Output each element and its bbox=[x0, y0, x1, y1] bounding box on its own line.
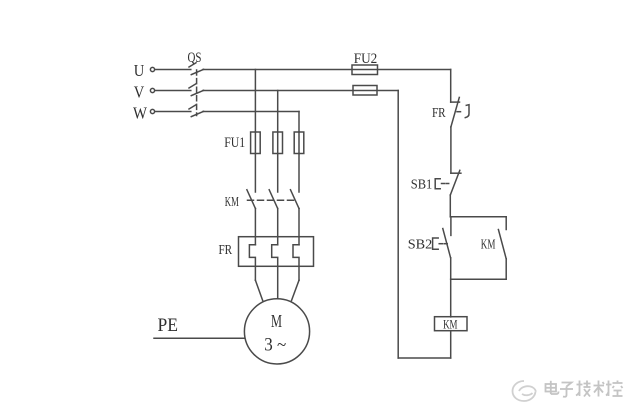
svg-text:FR: FR bbox=[218, 243, 232, 258]
wire W-bus bbox=[203, 111, 299, 113]
wire coil-to-bottom bbox=[450, 331, 452, 358]
wire fuse1-to-KM bbox=[254, 154, 256, 193]
svg-text:KM: KM bbox=[225, 195, 239, 210]
node W terminal bbox=[133, 103, 155, 122]
svg-text:PE: PE bbox=[158, 315, 179, 336]
coil KM bbox=[435, 317, 468, 332]
wire W-in bbox=[155, 111, 191, 113]
motor M 3~ bbox=[244, 299, 309, 364]
wire left rail bbox=[397, 91, 399, 359]
svg-text:3 ~: 3 ~ bbox=[264, 335, 286, 356]
watermark text 电子技术控 bbox=[546, 381, 623, 397]
wire U-bus bbox=[203, 69, 451, 71]
node U terminal bbox=[134, 61, 155, 80]
wire FR-to-SB1 bbox=[450, 127, 452, 173]
wire V-in bbox=[155, 90, 191, 92]
svg-text:M: M bbox=[271, 311, 282, 331]
wire FR-to-motor left bbox=[255, 280, 262, 300]
wire phase1 drop bbox=[254, 70, 256, 133]
wire control right rail top bbox=[450, 70, 452, 103]
svg-text:W: W bbox=[133, 103, 148, 122]
watermark logo swirl bbox=[513, 381, 536, 401]
wire SB2 bottom lead bbox=[450, 258, 452, 279]
wire fuse3-to-KM bbox=[298, 154, 300, 193]
pushbutton SB2 (start, NO) bbox=[408, 229, 451, 258]
wire V-bus bbox=[203, 90, 398, 92]
ground PE bbox=[154, 315, 244, 338]
wire fuse2-to-KM bbox=[277, 154, 279, 193]
thermal relay FR heater block bbox=[218, 237, 313, 299]
contact FR NC (overload trip) bbox=[432, 97, 469, 127]
wire KM-to-FR p3 bbox=[298, 209, 300, 245]
pushbutton SB1 (stop, NC) bbox=[411, 170, 461, 195]
svg-text:U: U bbox=[134, 61, 145, 80]
switch QS bbox=[188, 50, 204, 117]
wire KM-to-FR p2 bbox=[277, 209, 279, 245]
contactor KM main contacts bbox=[225, 190, 299, 210]
wire SB1-to-junction bbox=[449, 195, 451, 217]
wire phase2 drop bbox=[277, 91, 279, 133]
wire KM-aux bottom lead bbox=[505, 259, 507, 279]
svg-text:SB1: SB1 bbox=[411, 178, 433, 193]
wire junction-to-coil bbox=[450, 279, 452, 317]
wire junction top branch bbox=[450, 216, 506, 218]
node V terminal bbox=[134, 82, 155, 101]
wire bottom rail bbox=[398, 357, 451, 359]
wire KM-to-FR p1 bbox=[254, 209, 256, 245]
svg-text:FR: FR bbox=[432, 106, 446, 121]
wire phase3 drop bbox=[298, 112, 300, 133]
fuse FU1 bbox=[224, 132, 304, 154]
svg-text:FU1: FU1 bbox=[224, 135, 245, 151]
svg-text:SB2: SB2 bbox=[408, 238, 433, 253]
fuse FU2 bbox=[352, 51, 378, 95]
wire KM-aux top lead bbox=[505, 217, 507, 230]
wire SB2 top lead bbox=[450, 217, 452, 236]
svg-text:KM: KM bbox=[481, 238, 496, 253]
contact KM auxiliary (hold-in, NO) bbox=[481, 230, 506, 259]
wire FR-to-motor right bbox=[292, 280, 300, 300]
wire junction bottom branch bbox=[451, 278, 507, 280]
wire U-in bbox=[155, 69, 191, 71]
svg-text:V: V bbox=[134, 82, 145, 101]
svg-text:KM: KM bbox=[443, 317, 458, 332]
